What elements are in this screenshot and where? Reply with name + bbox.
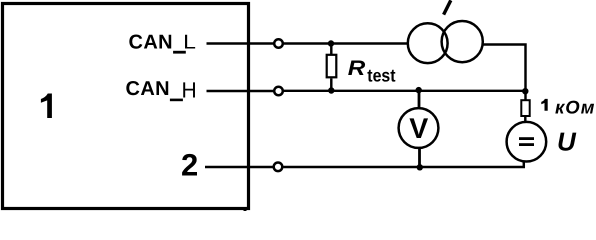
wire resistor to source U xyxy=(524,117,526,122)
wire CAN_H terminal to right branch xyxy=(284,90,526,92)
junction dot R_test top xyxy=(328,40,334,46)
wire line 2 from label to terminal xyxy=(205,166,274,168)
wire CAN_H from label to terminal xyxy=(207,90,274,92)
label 1 kOhm xyxy=(541,99,547,111)
terminal 2 xyxy=(274,163,283,172)
svg-text:test: test xyxy=(367,66,395,86)
voltmeter V circle xyxy=(399,108,439,148)
svg-text:H: H xyxy=(182,77,197,102)
svg-text:U: U xyxy=(557,126,577,156)
wire CAN_L terminal to ammeter xyxy=(284,42,408,44)
wire voltmeter bottom lead xyxy=(418,149,421,168)
ECU box 1 xyxy=(3,4,249,209)
resistor 1 kOhm xyxy=(521,100,529,116)
svg-text:R: R xyxy=(348,57,366,80)
source U circle xyxy=(507,122,547,162)
ammeter I left circle xyxy=(408,23,448,63)
stub below box bottom xyxy=(244,208,247,211)
junction dot voltmeter on line 2 xyxy=(417,164,423,170)
wire R_test bottom lead xyxy=(330,79,332,91)
svg-text:2: 2 xyxy=(181,148,198,183)
terminal CAN_H xyxy=(274,87,283,96)
junction dot voltmeter tap xyxy=(416,87,422,93)
label I xyxy=(444,0,451,14)
svg-text:CAN: CAN xyxy=(129,31,174,53)
terminal CAN_L xyxy=(274,39,283,48)
ammeter I right circle xyxy=(442,21,483,62)
wire CAN_L from label to terminal xyxy=(207,42,274,44)
wire line 2 terminal to source U xyxy=(284,161,524,167)
junction dot R_test bottom xyxy=(328,87,334,93)
wire voltmeter top lead xyxy=(418,91,421,109)
svg-text:V: V xyxy=(409,113,428,145)
svg-text:кОм: кОм xyxy=(555,97,595,118)
resistor R_test xyxy=(327,55,337,78)
label 1 xyxy=(41,94,52,119)
wire R_test top lead xyxy=(330,44,332,55)
wire ammeter to right branch corner xyxy=(483,45,526,100)
junction dot CAN_H at right branch xyxy=(522,88,528,94)
equals sign in source U xyxy=(519,137,534,140)
svg-text:L: L xyxy=(183,32,196,54)
svg-text:CAN: CAN xyxy=(126,78,171,100)
